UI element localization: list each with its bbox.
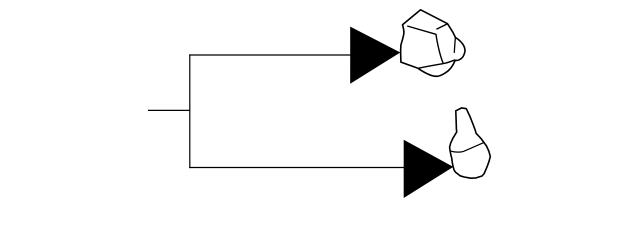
arrow to part B [404,140,454,198]
part A: lobe inner edge [454,37,455,53]
wire: top branch [189,54,351,56]
part A: front-top inner edge and front-right edge [407,26,443,64]
part A: flange top edge [418,60,455,69]
wire: bottom branch [189,167,405,169]
part A: square retainer clip (outer outline) [401,10,465,77]
wire: vertical bracket [189,54,191,168]
part B: push pin clip (outer outline) [450,108,491,178]
part B: collar line [450,143,484,152]
wire: left stub [148,109,190,111]
arrow to part A [350,27,400,84]
part A: top face right inner edge [436,24,447,29]
